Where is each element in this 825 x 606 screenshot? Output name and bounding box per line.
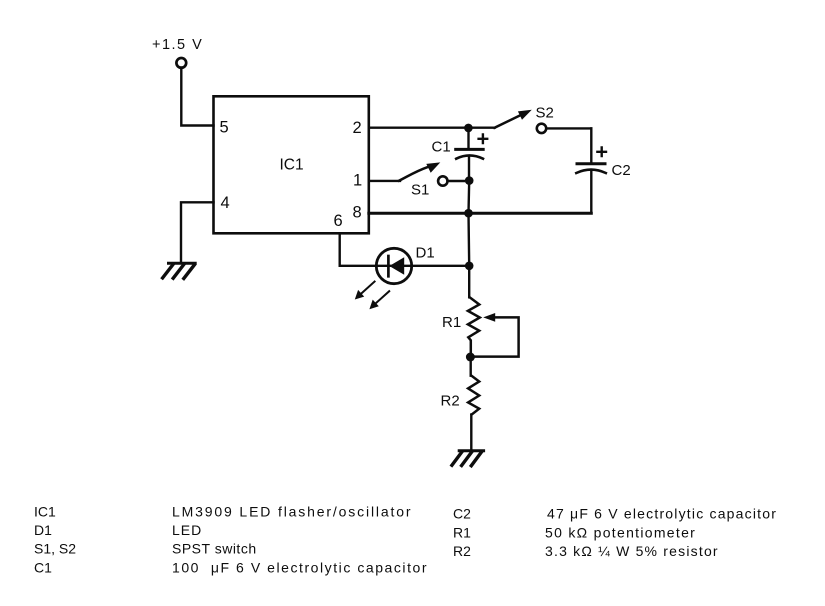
resistor R2 zigzag	[468, 376, 479, 415]
parts list row C1 designator	[34, 560, 52, 576]
svg-text:4: 4	[221, 194, 230, 212]
pin 1 label	[353, 171, 362, 189]
IC IC1 LM3909 body	[214, 96, 369, 233]
svg-text:3.3 kΩ ¼ W 5% resistor: 3.3 kΩ ¼ W 5% resistor	[545, 543, 719, 559]
svg-text:100 μF 6 V electrolytic capac: 100 μF 6 V electrolytic capacitor	[172, 560, 428, 576]
pin 2 label	[353, 119, 362, 137]
D1 label	[416, 244, 435, 261]
svg-text:5: 5	[220, 119, 229, 137]
switch S2 lever	[495, 115, 521, 128]
svg-text:+1.5 V: +1.5 V	[152, 37, 203, 53]
pin 5 label	[220, 119, 229, 137]
parts list row S1,S2 value: SPST switch	[172, 541, 257, 557]
wire +1.5V terminal to pin 5	[181, 68, 213, 126]
svg-text:D1: D1	[34, 522, 52, 538]
C1 label	[432, 139, 451, 156]
S2 label	[536, 104, 554, 121]
wire S1 terminal to node B	[448, 180, 464, 182]
svg-text:C2: C2	[453, 506, 471, 522]
junction node C (pin 8 rail / vertical rail)	[464, 209, 473, 218]
parts list row C2 value: 47 uF 6 V electrolytic capacitor	[547, 506, 777, 522]
svg-text:S1: S1	[411, 181, 429, 198]
LED D1 light arrow 2 head	[369, 300, 378, 310]
wire pin 6 down and left to LED D1 anode	[340, 233, 394, 265]
wire node B to node C	[467, 181, 470, 214]
IC1 label	[280, 156, 304, 173]
wire C1 bottom plate to node B	[468, 158, 470, 181]
svg-text:LED: LED	[172, 522, 202, 538]
LED D1 circle	[376, 248, 411, 283]
svg-text:R1: R1	[442, 314, 461, 331]
net label +1.5 V	[152, 37, 203, 53]
parts list row D1 value: LED	[172, 522, 202, 538]
capacitor C1 plates	[456, 149, 484, 158]
parts list row C2 designator	[453, 506, 471, 522]
svg-text:SPST switch: SPST switch	[172, 541, 257, 557]
svg-text:47 μF 6 V electrolytic capacit: 47 μF 6 V electrolytic capacitor	[547, 506, 777, 522]
svg-text:8: 8	[353, 203, 362, 221]
R2 label	[441, 392, 460, 409]
LED D1 light arrow 1	[358, 282, 375, 297]
parts list row R2 value: 3.3 kOhm 1/4 W 5% resistor	[545, 543, 719, 559]
pin 6 label	[334, 212, 343, 230]
svg-text:C1: C1	[34, 560, 52, 576]
svg-text:1: 1	[353, 171, 362, 189]
ground (right, below R2)	[452, 451, 484, 466]
bottom rail: wire pin 8 to C2 bottom	[369, 212, 592, 215]
parts list row IC1 value: LM3909 LED flasher/oscillator	[172, 504, 412, 520]
parts list row R2 designator	[453, 543, 471, 559]
junction node D (LED / rail)	[465, 262, 474, 271]
svg-text:C2: C2	[612, 162, 631, 179]
svg-text:6: 6	[334, 212, 343, 230]
svg-text:D1: D1	[416, 244, 435, 261]
switch S2 arrowhead	[518, 110, 532, 120]
parts list row R1 value: 50 kOhm potentiometer	[545, 524, 696, 540]
svg-text:50 kΩ potentiometer: 50 kΩ potentiometer	[545, 524, 696, 540]
wire LED D1 cathode side to node D	[394, 265, 465, 267]
wire C2 bottom plate to bottom rail	[590, 171, 592, 214]
switch S1 arrowhead	[426, 162, 440, 172]
parts list row D1 designator	[34, 522, 52, 538]
capacitor C2 polarity +	[597, 148, 606, 157]
pin 4 label	[221, 194, 230, 212]
junction node B (C1 / S1)	[465, 176, 474, 185]
R1 label	[442, 314, 461, 331]
switch S2 terminal circle	[537, 124, 546, 133]
wire pin 4 to left ground	[181, 202, 214, 261]
potentiometer R1 zigzag	[468, 297, 480, 353]
svg-text:R2: R2	[441, 392, 460, 409]
wire node D down to R1	[468, 266, 470, 298]
parts list row IC1 designator	[34, 504, 56, 520]
parts list row S1,S2 designator	[34, 541, 76, 557]
ground (left, below pin 4)	[163, 263, 196, 278]
svg-text:LM3909 LED flasher/oscillator: LM3909 LED flasher/oscillator	[172, 504, 412, 520]
pin 8 label	[353, 203, 362, 221]
wire node C to node D	[467, 213, 470, 266]
svg-text:C1: C1	[432, 139, 451, 156]
wire S2 terminal to C2 top corner	[546, 127, 591, 129]
C2 label	[612, 162, 631, 179]
wire pin 2 to node A and S2 lever pivot	[369, 126, 495, 128]
LED D1 cathode bar	[387, 256, 390, 276]
capacitor C1 polarity +	[479, 135, 488, 144]
parts list row R1 designator	[453, 524, 471, 540]
R1 wiper wire	[475, 317, 519, 356]
switch S1 lever	[399, 167, 428, 181]
svg-text:R1: R1	[453, 524, 471, 540]
wire node A down to C1 top plate	[467, 128, 469, 148]
R1 wiper arrowhead	[483, 313, 495, 322]
wire C2 top (corner down to plate)	[590, 128, 592, 162]
wire R2 to right ground	[470, 415, 472, 451]
LED D1 light arrow 2	[372, 291, 389, 306]
LED D1 triangle	[389, 257, 404, 274]
junction node E (R1 bottom / wiper / R2)	[466, 353, 475, 362]
parts list row C1 value: 100 uF 6 V electrolytic capacitor	[172, 560, 428, 576]
LED D1 light arrow 1 head	[355, 290, 364, 300]
wire node E to R2	[470, 357, 472, 376]
switch S1 terminal circle	[438, 176, 447, 185]
capacitor C2 plates	[576, 164, 606, 173]
svg-text:R2: R2	[453, 543, 471, 559]
svg-text:IC1: IC1	[280, 156, 304, 173]
svg-text:IC1: IC1	[34, 504, 56, 520]
wire pin 1 to S1 lever pivot	[369, 180, 400, 182]
svg-text:S2: S2	[536, 104, 554, 121]
battery terminal circle (+1.5 V)	[176, 58, 186, 68]
junction node A (pin2 / C1 / S2)	[464, 124, 473, 133]
S1 label	[411, 181, 429, 198]
svg-text:S1, S2: S1, S2	[34, 541, 76, 557]
svg-text:2: 2	[353, 119, 362, 137]
